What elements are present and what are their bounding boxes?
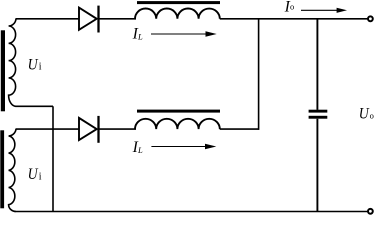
wire winding U1 bottom lead	[16, 105, 54, 107]
capacitor C plates	[309, 110, 328, 119]
arrow IL (lower)	[151, 144, 216, 149]
output terminal (top)	[368, 16, 373, 21]
wire diode2 to inductor2	[99, 128, 137, 130]
label Ui (lower)	[28, 166, 42, 183]
svg-text:U: U	[28, 166, 39, 183]
riser wire branch2 to top rail	[258, 19, 260, 130]
core bar of L2	[137, 110, 220, 113]
inductor L2	[135, 119, 220, 129]
svg-text:i: i	[39, 62, 42, 73]
transformer core bar (lower)	[0, 130, 4, 208]
wire inductor2 to node riser	[220, 128, 259, 130]
svg-text:o: o	[370, 110, 374, 120]
label IL (lower)	[132, 139, 143, 156]
svg-text:o: o	[290, 2, 294, 12]
wire top rail left (winding U1 top to diode D1 anode)	[16, 18, 80, 20]
svg-text:L: L	[137, 31, 143, 41]
output terminal (bottom)	[368, 209, 373, 214]
winding U1 (upper secondary)	[9, 19, 16, 107]
label Io	[284, 0, 295, 15]
winding U2 (lower secondary)	[9, 129, 16, 211]
transformer core bar (upper)	[1, 30, 5, 111]
return wire from winding U1 bottom	[52, 106, 54, 211]
svg-text:L: L	[137, 145, 143, 155]
arrow IL (upper)	[151, 31, 217, 36]
capacitor C (top lead)	[316, 19, 318, 110]
arrow Io	[301, 8, 347, 13]
capacitor C (bottom lead)	[316, 119, 318, 212]
diode D2	[79, 116, 99, 143]
diode D1	[79, 6, 99, 33]
wire diode1 to inductor1	[99, 18, 137, 20]
svg-text:U: U	[28, 56, 39, 73]
wire winding U2 top lead to diode D2 anode	[16, 128, 80, 130]
core bar of L1	[137, 1, 220, 4]
inductor L1	[135, 8, 220, 18]
label IL (upper)	[132, 26, 143, 43]
svg-text:i: i	[39, 171, 42, 182]
label Ui (upper)	[28, 56, 42, 73]
wire inductor1 to output node	[220, 18, 368, 20]
wire bottom rail	[16, 211, 368, 213]
label Uo	[359, 105, 374, 122]
svg-text:U: U	[359, 105, 370, 122]
